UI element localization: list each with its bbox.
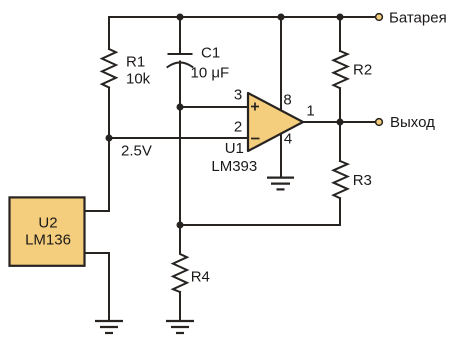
capacitor C1 wire from top rail [179,17,181,54]
node dot top rail / R2 [337,14,344,21]
IC U2 LM136 box [10,197,85,265]
svg-text:R1: R1 [126,53,145,70]
svg-text:4: 4 [284,131,292,148]
op-amp U1 triangle [248,93,303,151]
svg-text:U2: U2 [38,215,57,232]
wire R1 bottom to U2 top pin [84,88,109,212]
svg-text:10k: 10k [126,70,151,87]
svg-text:R4: R4 [191,269,210,286]
svg-text:LM136: LM136 [25,232,71,249]
svg-text:1: 1 [306,102,314,119]
op-amp plus mark [251,103,259,111]
wire pin 3 input [180,106,248,108]
wire top rail [109,16,375,18]
svg-text:2: 2 [234,119,242,136]
wire R4 to ground [179,292,181,320]
svg-text:R2: R2 [353,61,372,78]
svg-text:3: 3 [234,86,242,103]
svg-text:10 μF: 10 μF [191,64,230,81]
svg-text:8: 8 [283,92,291,109]
svg-text:2.5V: 2.5V [121,142,152,159]
svg-text:U1: U1 [225,140,244,157]
ground (under U2) [95,321,123,333]
svg-text:C1: C1 [201,44,220,61]
wire left branch upper (top rail to R1) [108,17,110,49]
terminal Батарея [376,14,383,21]
node dot top rail / C1 [177,14,184,21]
capacitor C1 curved plate [168,63,193,68]
node dot pin3 / C1 branch [177,104,184,111]
wire output pin 1 [303,121,375,123]
wire U2 lower pin to ground [84,253,109,320]
svg-text:Выход: Выход [390,114,435,131]
wire output node to R3 [339,122,341,161]
node dot output / R2-R3 [337,119,344,126]
ground (op-amp pin 4) [267,178,294,190]
wire pin 2 input from 2.5V node [109,137,248,139]
svg-text:R3: R3 [353,172,372,189]
node dot R4 top / lower wire [177,222,184,229]
capacitor C1 top plate [169,53,192,55]
node dot 2.5V [106,135,113,142]
wire R3 bottom to lower node [180,198,340,225]
svg-text:LM393: LM393 [211,158,257,175]
resistor R3 [334,161,348,198]
resistor R4 [173,225,187,292]
ground (under R4) [166,321,194,333]
node dot top rail / op-amp supply [278,14,285,21]
wire R2 to output node [339,88,341,122]
resistor R1 [102,49,116,88]
resistor R2 [334,51,348,88]
wire C1 to bottom node (through pin3 node and 2.5V crossing) [179,62,181,226]
wire R2 branch top [339,17,341,51]
terminal Выход [376,119,383,126]
svg-text:Батарея: Батарея [389,10,447,27]
op-amp minus mark [251,138,260,140]
wire op-amp positive supply pin 8 / pin 4 to ground [280,17,282,177]
